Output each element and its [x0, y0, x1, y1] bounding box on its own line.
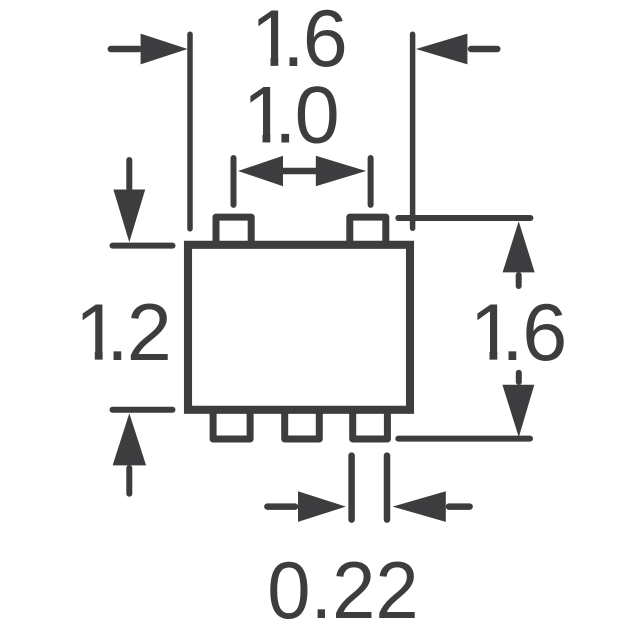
- bottom lead P4: [285, 410, 320, 439]
- label 1.6 top: [251, 0, 348, 84]
- package body: [188, 245, 410, 410]
- svg-text:2: 2: [127, 288, 172, 378]
- top width dim: left extension line: [187, 34, 193, 229]
- top lead P2: [350, 217, 386, 245]
- body height dim: down arrowhead: [113, 190, 145, 243]
- lead span dim: up arrow tail: [516, 275, 522, 286]
- top width dim: right arrowhead: [416, 34, 467, 65]
- body height dim: top tick: [113, 243, 173, 249]
- label 1.0: [243, 71, 340, 161]
- svg-text:0.22: 0.22: [267, 544, 418, 635]
- pin pitch dim: center bar: [281, 168, 317, 175]
- lead width dim: right arrowhead: [393, 491, 446, 522]
- pin pitch dim: right extension line: [368, 158, 374, 205]
- top width dim: left arrowhead: [141, 34, 188, 65]
- lead width dim: left arrowhead: [298, 491, 346, 522]
- lead span dim: down arrow tail: [516, 373, 522, 382]
- body height dim: up arrow tail: [126, 468, 132, 494]
- svg-text:.: .: [274, 71, 297, 161]
- pin pitch dim: right arrowhead: [316, 156, 366, 186]
- svg-text:.: .: [501, 288, 524, 378]
- lead width dim: right arrow tail: [449, 503, 470, 510]
- body height dim: down arrow tail: [126, 160, 132, 189]
- bottom lead P3: [213, 410, 250, 439]
- lead width dim: right extension line: [384, 456, 391, 520]
- body height dim: up arrowhead: [113, 413, 147, 465]
- lead span dim: bottom tick: [398, 436, 530, 442]
- svg-text:.: .: [106, 288, 129, 378]
- label 1.6 right: [470, 288, 568, 378]
- label 1.2: [75, 288, 172, 378]
- svg-text:0: 0: [295, 71, 340, 161]
- lead width dim: left extension line: [348, 456, 355, 520]
- bottom lead P5: [353, 410, 388, 439]
- lead span dim: up arrowhead: [503, 221, 535, 272]
- lead span dim: down arrowhead: [502, 385, 534, 438]
- top lead P1: [216, 217, 251, 245]
- lead width dim: left arrow tail: [267, 503, 295, 510]
- pin pitch dim: left extension line: [231, 158, 237, 205]
- top width dim: left arrow tail: [111, 46, 139, 53]
- top width dim: right arrow tail: [471, 46, 497, 53]
- pin pitch dim: left arrowhead: [238, 156, 283, 186]
- lead span dim: top tick: [398, 215, 530, 221]
- svg-text:6: 6: [522, 288, 567, 378]
- label 0.22: [267, 544, 418, 635]
- top width dim: right extension line: [410, 34, 416, 228]
- body height dim: bottom tick: [113, 407, 173, 413]
